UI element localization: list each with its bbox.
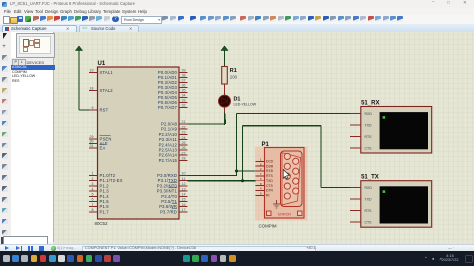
P1 DB9 hole R2 bbox=[293, 168, 299, 174]
P1 pin 8 CTS bbox=[256, 184, 265, 186]
U1 left pin 3 P1.2 bbox=[89, 184, 98, 186]
51_TX pin TXD bbox=[350, 198, 361, 200]
U1 right pin 27 P2.6/A14 bbox=[179, 154, 188, 156]
wire power to R1 bbox=[224, 50, 226, 66]
U1 right pin 21 P2.0/A8 bbox=[179, 123, 188, 125]
wire RXD jog up bbox=[236, 171, 238, 176]
51_TX pin RXD bbox=[350, 186, 361, 188]
U1 left pin 30 ALE bbox=[89, 142, 98, 144]
P1 DB9 hole R1 bbox=[293, 158, 299, 164]
svg-text:29: 29 bbox=[90, 135, 94, 139]
bottom-left white coordinate box bbox=[3, 236, 48, 246]
svg-text:51_TX: 51_TX bbox=[361, 174, 379, 180]
U1 right pin 25 P2.4/A12 bbox=[179, 143, 188, 145]
P1 pin 4 DTR bbox=[256, 189, 265, 191]
svg-text:34: 34 bbox=[182, 93, 186, 97]
svg-text:18: 18 bbox=[90, 86, 94, 90]
51_TX screen bbox=[380, 186, 428, 223]
status / animation bar bbox=[0, 244, 474, 252]
svg-text:RI: RI bbox=[266, 193, 269, 197]
left panel bbox=[11, 32, 55, 243]
U1 right pin 39 P0.0/AD0 bbox=[179, 71, 188, 73]
svg-text:D1: D1 bbox=[234, 96, 241, 102]
svg-text:R1: R1 bbox=[230, 68, 237, 74]
U1 left pin 29 PSEN bbox=[89, 138, 98, 140]
51_TX pin CTS bbox=[350, 221, 361, 223]
junction dot TXD bbox=[241, 179, 244, 182]
svg-text:11: 11 bbox=[182, 176, 186, 180]
U1 left pin 7 P1.6 bbox=[89, 205, 98, 207]
svg-text:RST: RST bbox=[100, 107, 109, 112]
resistor R1 value 200 bbox=[222, 66, 228, 84]
svg-text:16: 16 bbox=[182, 202, 186, 206]
P1 pin 1 DCD bbox=[256, 160, 265, 162]
svg-text:26: 26 bbox=[182, 146, 186, 150]
svg-text:RXD: RXD bbox=[365, 186, 373, 190]
svg-text:10: 10 bbox=[182, 171, 186, 175]
svg-text:30: 30 bbox=[90, 139, 94, 143]
svg-text:P1: P1 bbox=[262, 142, 270, 148]
connector P1 COMPIM body bbox=[265, 147, 305, 218]
schematic background bbox=[53, 32, 474, 245]
svg-text:2: 2 bbox=[92, 176, 94, 180]
U1 right pin 24 P2.3/A11 bbox=[179, 138, 188, 140]
microcontroller U1 80C52 body bbox=[98, 67, 180, 219]
51_RX pin CTS bbox=[350, 147, 361, 149]
svg-text:RXD: RXD bbox=[365, 111, 373, 115]
svg-text:24: 24 bbox=[182, 135, 186, 139]
U1 right pin 12 P3.2/INT0 bbox=[179, 184, 188, 186]
svg-text:TXD: TXD bbox=[365, 123, 372, 127]
svg-text:19: 19 bbox=[90, 68, 94, 72]
svg-text:CTS: CTS bbox=[266, 183, 274, 187]
svg-text:14: 14 bbox=[182, 192, 186, 196]
svg-text:3: 3 bbox=[92, 182, 94, 186]
P1 pin 3 TXD bbox=[256, 179, 265, 181]
U1 right pin 33 P0.6/AD6 bbox=[179, 101, 188, 103]
U1 left pin 9 RST bbox=[89, 109, 98, 111]
title bar bbox=[0, 0, 474, 8]
P1 error indicator left bbox=[267, 211, 272, 216]
svg-text:35: 35 bbox=[182, 88, 186, 92]
svg-text:32: 32 bbox=[182, 103, 186, 107]
svg-text:36: 36 bbox=[182, 83, 186, 87]
P1 DB9 hole L3 bbox=[284, 173, 290, 179]
svg-text:DTR: DTR bbox=[266, 188, 274, 192]
svg-text:U1: U1 bbox=[98, 61, 106, 67]
svg-text:28: 28 bbox=[182, 156, 186, 160]
P1 DB9 inner shell bbox=[282, 152, 301, 204]
U1 right pin 13 P3.3/INT1 bbox=[179, 190, 188, 192]
wire to U1 P2.0 bbox=[188, 123, 225, 125]
svg-text:21: 21 bbox=[182, 120, 186, 124]
junction dot RXD bbox=[235, 169, 238, 172]
P1 pin 6 DSR bbox=[256, 165, 265, 167]
svg-text:P3.7/RD: P3.7/RD bbox=[160, 209, 177, 214]
svg-text:27: 27 bbox=[182, 151, 186, 155]
svg-text:51_RX: 51_RX bbox=[361, 100, 379, 106]
U1 right pin 15 P3.5/T1 bbox=[179, 200, 188, 202]
U1 left pin 6 P1.5 bbox=[89, 200, 98, 202]
wire power to RST horizontal bbox=[79, 109, 91, 111]
svg-text:P2.7/A15: P2.7/A15 bbox=[159, 157, 178, 162]
U1 right pin 32 P0.7/AD7 bbox=[179, 106, 188, 108]
svg-text:5: 5 bbox=[92, 192, 94, 196]
U1 right pin 14 P3.4/T0 bbox=[179, 195, 188, 197]
U1 right pin 35 P0.4/AD4 bbox=[179, 91, 188, 93]
51_RX pin RTS bbox=[350, 135, 361, 137]
P1 DB9 hole R3 bbox=[293, 178, 299, 184]
U1 right pin 34 P0.5/AD5 bbox=[179, 96, 188, 98]
wire U1 P3.0/RXD right bbox=[188, 174, 238, 176]
P1 DB9 hole L4 bbox=[284, 183, 290, 189]
P1 pin 9 RI bbox=[256, 194, 265, 196]
U1 right pin 23 P2.2/A10 bbox=[179, 133, 188, 135]
LED D1 lower lead bbox=[224, 107, 226, 112]
U1 right pin 10 P3.0/RXD bbox=[179, 174, 188, 176]
51_RX pin RXD bbox=[350, 112, 361, 114]
wire RXD into P1 bbox=[237, 170, 257, 172]
U1 right pin 11 P3.1/TXD bbox=[179, 179, 188, 181]
svg-text:12: 12 bbox=[182, 182, 186, 186]
svg-text:6: 6 bbox=[92, 197, 94, 201]
svg-text:33: 33 bbox=[182, 98, 186, 102]
virtual terminal 51_RX bbox=[361, 106, 432, 153]
svg-text:9: 9 bbox=[92, 106, 94, 110]
wire R1 to D1 (lead) bbox=[224, 84, 226, 96]
P1 DB9 hole L2 bbox=[284, 163, 290, 169]
svg-text:RXD: RXD bbox=[266, 169, 274, 173]
svg-text:P0.7/AD7: P0.7/AD7 bbox=[158, 105, 178, 110]
wire power to RST vertical bbox=[78, 50, 80, 110]
mouse cursor bbox=[283, 169, 289, 179]
svg-text:8: 8 bbox=[92, 208, 94, 212]
U1 left pin 19 XTAL1 bbox=[89, 71, 98, 73]
menu bar bbox=[0, 8, 474, 15]
svg-text:P1.7: P1.7 bbox=[100, 209, 110, 214]
svg-text:RTS: RTS bbox=[365, 209, 373, 213]
svg-text:1: 1 bbox=[92, 171, 94, 175]
wire U1 P3.1/TXD to P1 TXD bbox=[188, 179, 257, 181]
LED D1 LED-YELLOW bbox=[219, 95, 231, 107]
P1 DB9 hole L5 bbox=[284, 192, 290, 198]
svg-text:25: 25 bbox=[182, 141, 186, 145]
U1 left pin 31 EA bbox=[89, 147, 98, 149]
svg-text:TXD: TXD bbox=[266, 178, 273, 182]
svg-text:DSR: DSR bbox=[266, 164, 274, 168]
svg-text:13: 13 bbox=[182, 187, 186, 191]
svg-text:COMPIM: COMPIM bbox=[259, 223, 277, 228]
U1 right pin 28 P2.7/A15 bbox=[179, 159, 188, 161]
svg-text:EA: EA bbox=[100, 145, 106, 150]
wire D1 cathode down bbox=[225, 112, 226, 124]
svg-text:7: 7 bbox=[92, 202, 94, 206]
svg-text:23: 23 bbox=[182, 130, 186, 134]
U1 right pin 26 P2.5/A13 bbox=[179, 149, 188, 151]
wire RXD junction up bbox=[236, 113, 238, 171]
svg-text:TXD: TXD bbox=[365, 197, 372, 201]
svg-text:XTAL1: XTAL1 bbox=[100, 70, 114, 75]
U1 right pin 16 P3.6/WR bbox=[179, 205, 188, 207]
U1 left pin 8 P1.7 bbox=[89, 210, 98, 212]
wire TXD across bbox=[243, 124, 322, 126]
svg-text:LED-YELLOW: LED-YELLOW bbox=[234, 102, 257, 106]
U1 left pin 18 XTAL2 bbox=[89, 89, 98, 91]
svg-text:39: 39 bbox=[182, 68, 186, 72]
wire TXD down bbox=[320, 125, 322, 187]
51_TX pin RTS bbox=[350, 209, 361, 211]
51_RX pin TXD bbox=[350, 124, 361, 126]
svg-text:200: 200 bbox=[230, 74, 238, 79]
svg-text:RTS: RTS bbox=[266, 174, 273, 178]
power terminal above R1 bbox=[221, 45, 228, 50]
U1 left pin 1 P1.0/T2 bbox=[89, 174, 98, 176]
power terminal near RST bbox=[75, 45, 82, 50]
svg-text:CTS: CTS bbox=[365, 220, 373, 224]
svg-text:80C52: 80C52 bbox=[95, 221, 108, 226]
tab bar bbox=[0, 24, 474, 33]
U1 right pin 22 P2.1/A9 bbox=[179, 128, 188, 130]
U1 left pin 4 P1.3 bbox=[89, 190, 98, 192]
svg-text:17: 17 bbox=[182, 208, 186, 212]
wire TXD junction up bbox=[242, 125, 244, 180]
svg-text:22: 22 bbox=[182, 125, 186, 129]
U1 right pin 37 P0.2/AD2 bbox=[179, 81, 188, 83]
taskbar bbox=[0, 251, 474, 266]
svg-text:ERROR: ERROR bbox=[278, 212, 291, 216]
U1 left pin 2 P1.1/T2-EX bbox=[89, 179, 98, 181]
left icon strip bbox=[0, 32, 12, 243]
51_RX screen bbox=[380, 112, 428, 149]
P1 pin 2 RXD bbox=[256, 170, 265, 172]
P1 DB9 hole L1 bbox=[284, 153, 290, 159]
wire RXD to 51_RX bbox=[237, 112, 351, 114]
svg-text:15: 15 bbox=[182, 197, 186, 201]
svg-text:4: 4 bbox=[92, 187, 94, 191]
U1 right pin 38 P0.1/AD1 bbox=[179, 76, 188, 78]
P1 selection highlight bbox=[255, 146, 308, 220]
svg-text:RTS: RTS bbox=[365, 134, 373, 138]
svg-text:XTAL2: XTAL2 bbox=[100, 88, 114, 93]
P1 error indicator right bbox=[298, 211, 303, 216]
toolbar bbox=[0, 15, 474, 25]
P1 ground symbol bbox=[273, 200, 280, 208]
svg-text:CTS: CTS bbox=[365, 146, 373, 150]
svg-text:31: 31 bbox=[90, 144, 94, 148]
wire TXD to 51_TX bbox=[321, 186, 350, 188]
P1 pin 7 RTS bbox=[256, 174, 265, 176]
svg-text:37: 37 bbox=[182, 78, 186, 82]
P1 DB9 shell bbox=[281, 151, 303, 207]
virtual terminal 51_TX bbox=[361, 180, 432, 227]
svg-text:DCD: DCD bbox=[266, 159, 274, 163]
overlines on active-low pin names bbox=[169, 182, 178, 208]
U1 right pin 17 P3.7/RD bbox=[179, 210, 188, 212]
U1 right pin 36 P0.3/AD3 bbox=[179, 86, 188, 88]
svg-text:38: 38 bbox=[182, 73, 186, 77]
P1 DB9 hole R4 bbox=[293, 187, 299, 193]
U1 left pin 5 P1.4 bbox=[89, 195, 98, 197]
